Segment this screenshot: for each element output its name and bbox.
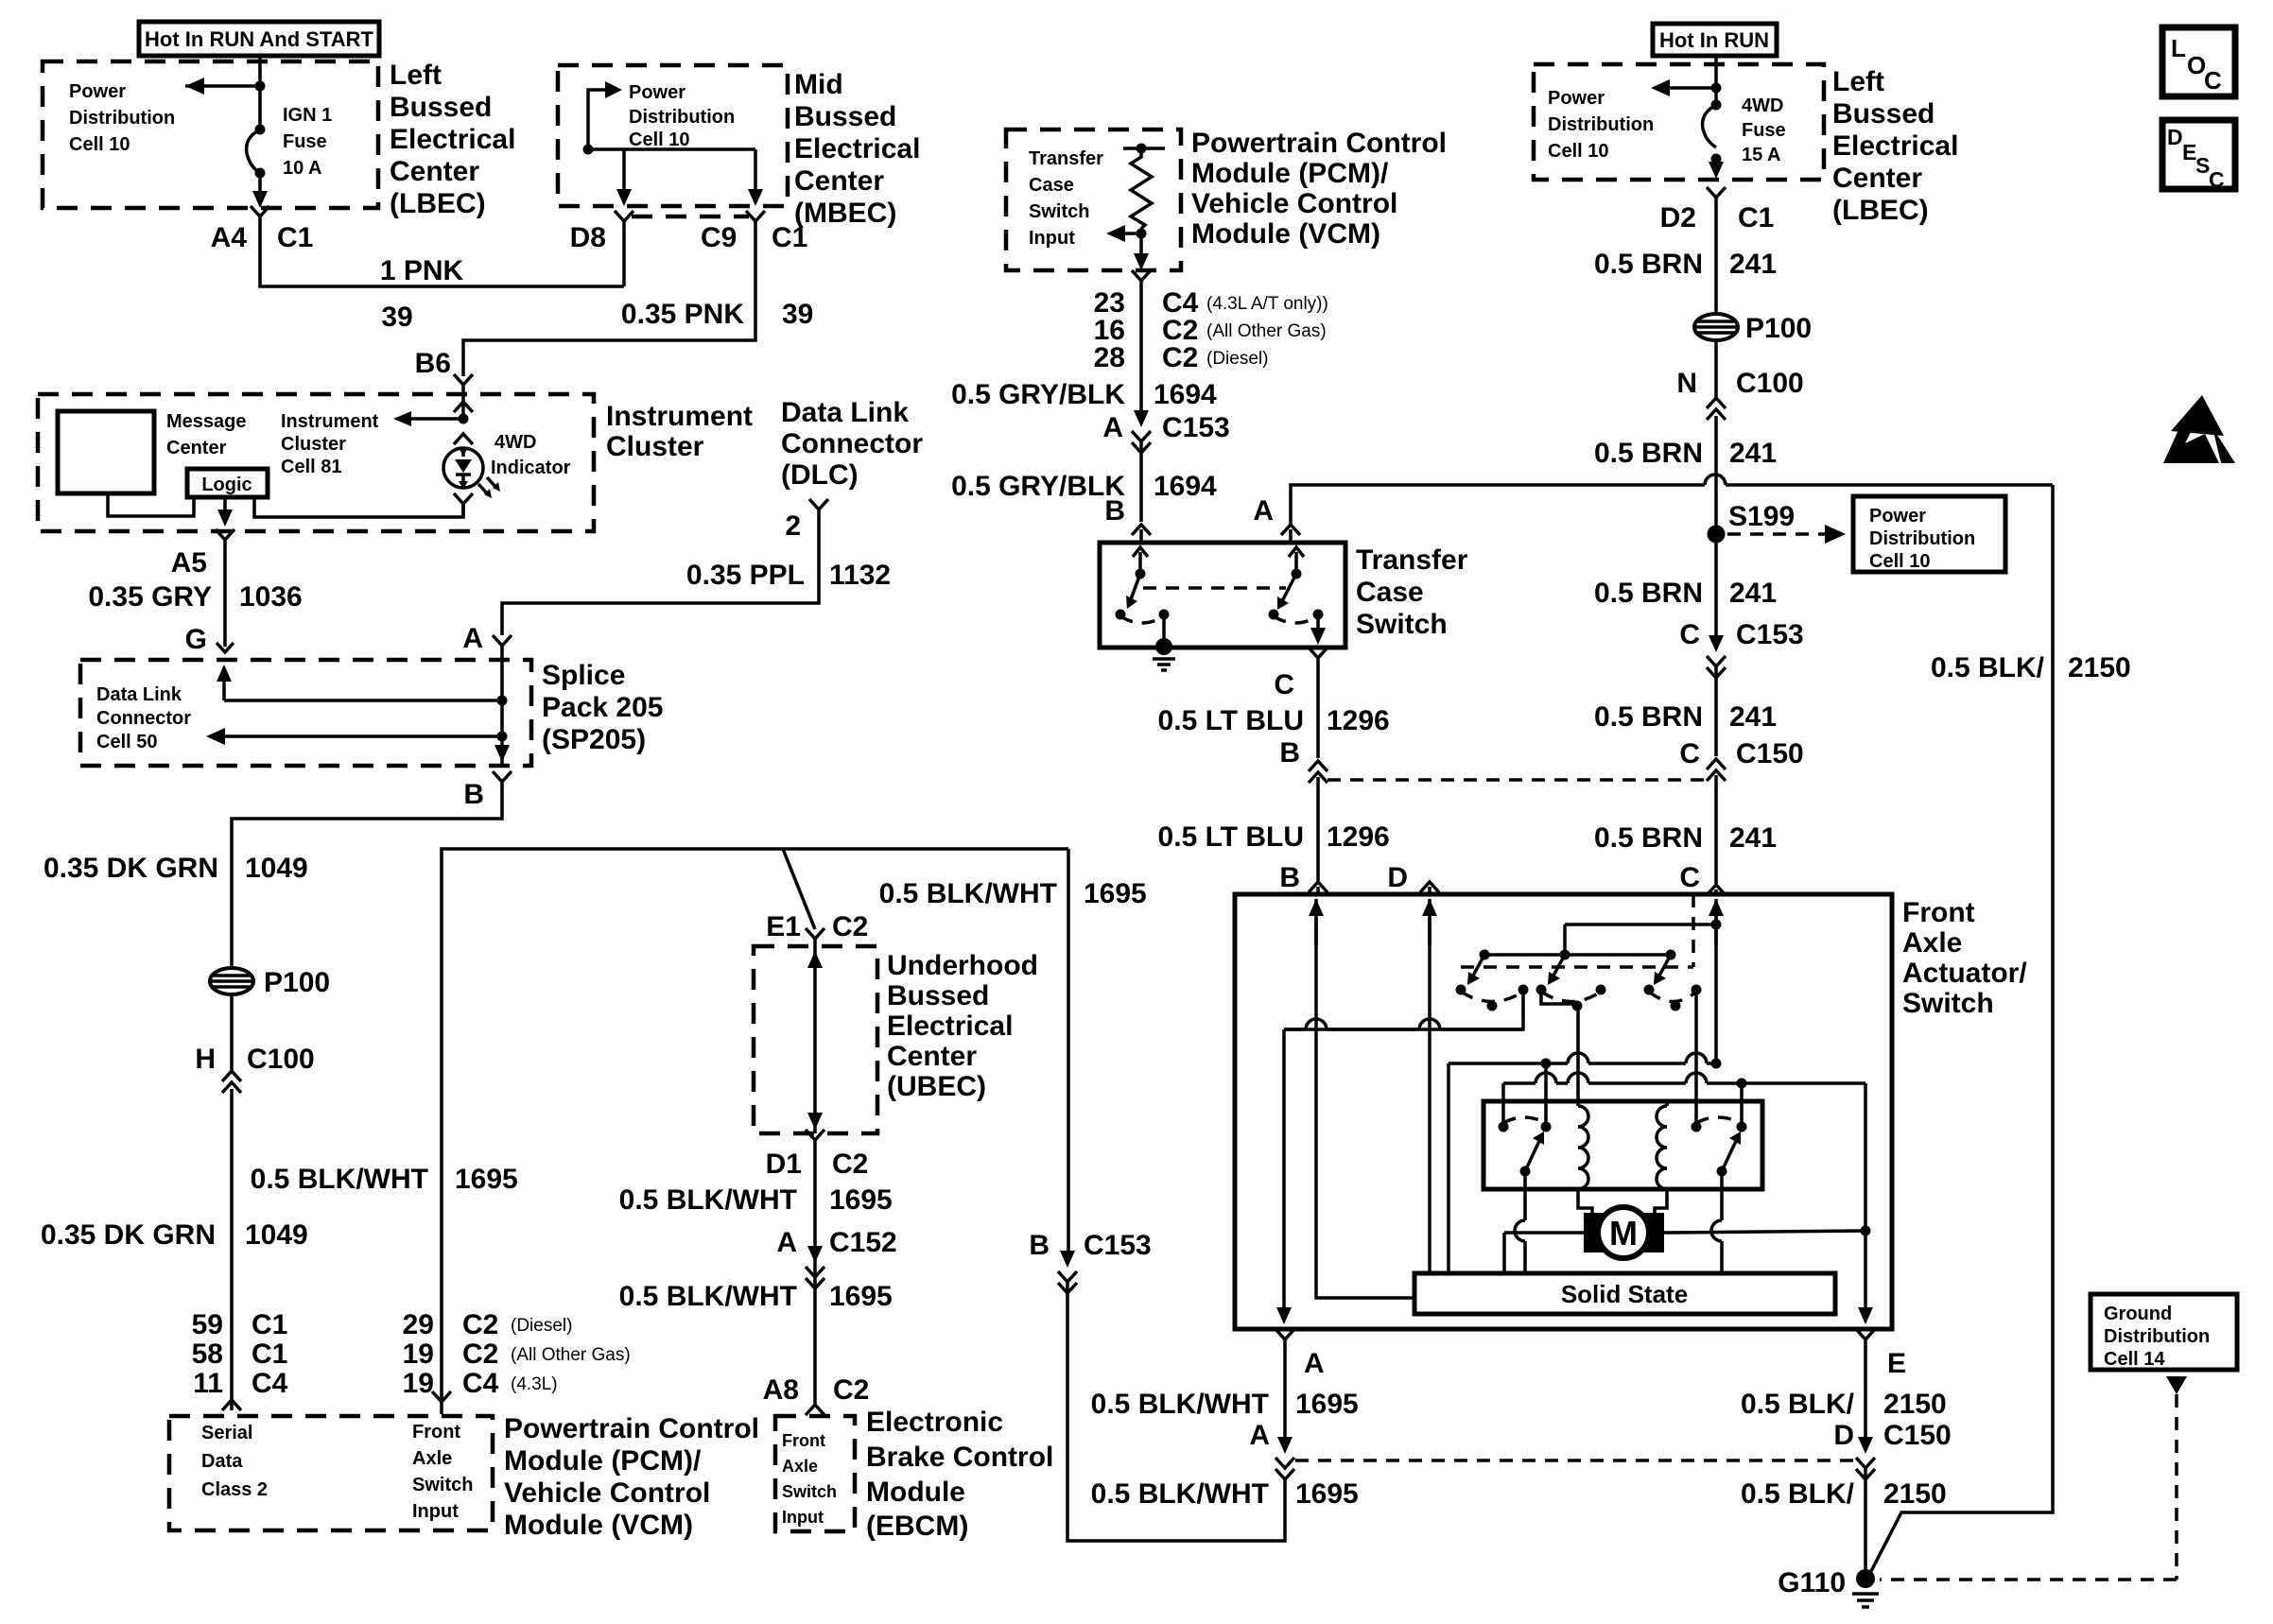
svg-text:0.35 PPL: 0.35 PPL bbox=[686, 560, 805, 591]
svg-text:Case: Case bbox=[1356, 577, 1424, 608]
svg-text:Power: Power bbox=[69, 81, 126, 102]
svg-text:0.5 BRN: 0.5 BRN bbox=[1594, 701, 1703, 733]
svg-text:1296: 1296 bbox=[1327, 821, 1390, 853]
svg-text:(All Other Gas): (All Other Gas) bbox=[1206, 321, 1327, 341]
svg-text:(UBEC): (UBEC) bbox=[887, 1071, 986, 1102]
svg-text:Switch: Switch bbox=[782, 1482, 837, 1501]
svg-text:(Diesel): (Diesel) bbox=[511, 1316, 572, 1336]
svg-text:Power: Power bbox=[1548, 88, 1605, 109]
svg-text:Bussed: Bussed bbox=[390, 92, 492, 123]
svg-text:(All Other Gas): (All Other Gas) bbox=[511, 1345, 631, 1365]
svg-text:(4.3L A/T only)): (4.3L A/T only)) bbox=[1206, 294, 1328, 314]
svg-text:0.5 BLK/WHT: 0.5 BLK/WHT bbox=[1091, 1478, 1269, 1510]
svg-text:39: 39 bbox=[782, 299, 813, 330]
svg-text:Electronic: Electronic bbox=[866, 1407, 1003, 1438]
svg-text:Left: Left bbox=[1832, 66, 1884, 97]
svg-text:Front: Front bbox=[1902, 897, 1975, 928]
svg-text:241: 241 bbox=[1729, 822, 1777, 854]
svg-text:D: D bbox=[1833, 1420, 1854, 1451]
svg-text:Serial: Serial bbox=[201, 1423, 252, 1443]
svg-text:C: C bbox=[1679, 619, 1700, 650]
svg-text:Module (VCM): Module (VCM) bbox=[1191, 218, 1380, 250]
svg-text:Cluster: Cluster bbox=[281, 434, 346, 455]
svg-text:2150: 2150 bbox=[1883, 1478, 1947, 1510]
svg-text:A4: A4 bbox=[211, 222, 248, 253]
svg-text:1049: 1049 bbox=[245, 1219, 308, 1251]
svg-text:C: C bbox=[1679, 862, 1700, 893]
svg-text:2150: 2150 bbox=[2068, 652, 2131, 683]
svg-text:B6: B6 bbox=[415, 348, 451, 379]
svg-text:D: D bbox=[2167, 125, 2183, 149]
svg-text:Transfer: Transfer bbox=[1029, 148, 1103, 169]
svg-text:(SP205): (SP205) bbox=[542, 724, 646, 755]
svg-text:Powertrain Control: Powertrain Control bbox=[1191, 128, 1447, 159]
svg-text:Solid State: Solid State bbox=[1561, 1280, 1688, 1308]
svg-text:4WD: 4WD bbox=[495, 432, 536, 453]
svg-text:Hot In RUN: Hot In RUN bbox=[1659, 28, 1769, 52]
svg-text:(EBCM): (EBCM) bbox=[866, 1511, 968, 1542]
svg-text:0.5 BRN: 0.5 BRN bbox=[1594, 438, 1703, 469]
svg-text:C2: C2 bbox=[462, 1339, 498, 1370]
svg-text:Distribution: Distribution bbox=[629, 107, 735, 128]
svg-text:Front: Front bbox=[412, 1422, 460, 1443]
svg-text:19: 19 bbox=[403, 1368, 434, 1399]
svg-text:0.5 GRY/BLK: 0.5 GRY/BLK bbox=[951, 379, 1125, 410]
svg-text:Transfer: Transfer bbox=[1356, 544, 1468, 576]
svg-text:0.5 BLK/WHT: 0.5 BLK/WHT bbox=[251, 1164, 428, 1195]
svg-text:Fuse: Fuse bbox=[283, 131, 327, 152]
svg-text:C2: C2 bbox=[462, 1309, 498, 1340]
svg-text:1695: 1695 bbox=[1084, 878, 1147, 909]
svg-text:Switch: Switch bbox=[412, 1475, 473, 1495]
svg-text:0.35 DK GRN: 0.35 DK GRN bbox=[43, 853, 218, 884]
svg-text:Logic: Logic bbox=[201, 475, 252, 495]
svg-text:(LBEC): (LBEC) bbox=[1832, 195, 1929, 226]
svg-text:A: A bbox=[1304, 1348, 1325, 1379]
svg-text:D8: D8 bbox=[570, 222, 606, 253]
svg-text:2150: 2150 bbox=[1883, 1389, 1947, 1420]
svg-text:Module (VCM): Module (VCM) bbox=[504, 1510, 693, 1541]
svg-text:A: A bbox=[1253, 495, 1274, 527]
svg-text:0.5 BLK/: 0.5 BLK/ bbox=[1741, 1389, 1855, 1420]
svg-text:1694: 1694 bbox=[1154, 379, 1217, 410]
svg-text:Connector: Connector bbox=[781, 428, 923, 459]
svg-text:Input: Input bbox=[782, 1508, 824, 1527]
svg-text:0.5 BRN: 0.5 BRN bbox=[1594, 249, 1703, 280]
svg-text:Switch: Switch bbox=[1902, 988, 1994, 1019]
svg-text:Data: Data bbox=[201, 1451, 243, 1472]
svg-text:S199: S199 bbox=[1728, 501, 1795, 532]
svg-text:Splice: Splice bbox=[542, 660, 625, 691]
svg-text:Cell 10: Cell 10 bbox=[1869, 551, 1930, 572]
svg-text:Hot In RUN And START: Hot In RUN And START bbox=[145, 27, 374, 51]
svg-text:A: A bbox=[1249, 1420, 1270, 1451]
svg-text:1132: 1132 bbox=[829, 560, 891, 591]
svg-text:Powertrain Control: Powertrain Control bbox=[504, 1413, 759, 1444]
svg-text:C9: C9 bbox=[701, 222, 737, 253]
svg-text:Module: Module bbox=[866, 1477, 965, 1508]
svg-text:Input: Input bbox=[412, 1501, 459, 1522]
svg-text:Cell 10: Cell 10 bbox=[1548, 141, 1608, 162]
svg-text:Center: Center bbox=[1832, 163, 1922, 194]
svg-text:Pack 205: Pack 205 bbox=[542, 692, 663, 723]
svg-text:A: A bbox=[1102, 412, 1123, 443]
svg-text:C: C bbox=[2209, 167, 2225, 192]
svg-text:A: A bbox=[462, 623, 483, 654]
svg-text:Center: Center bbox=[166, 438, 227, 458]
svg-text:Data Link: Data Link bbox=[96, 684, 182, 705]
svg-text:Left: Left bbox=[390, 60, 442, 91]
svg-text:P100: P100 bbox=[1745, 313, 1812, 344]
svg-text:0.5 BLK/: 0.5 BLK/ bbox=[1741, 1478, 1855, 1510]
svg-text:4WD: 4WD bbox=[1742, 95, 1783, 116]
svg-text:Module (PCM)/: Module (PCM)/ bbox=[1191, 158, 1389, 189]
svg-text:Cell 81: Cell 81 bbox=[281, 457, 341, 477]
svg-text:Center: Center bbox=[794, 165, 884, 197]
svg-text:Cell 10: Cell 10 bbox=[629, 130, 689, 150]
svg-text:Power: Power bbox=[629, 82, 685, 103]
svg-text:Electrical: Electrical bbox=[794, 133, 920, 164]
svg-text:(4.3L): (4.3L) bbox=[511, 1374, 558, 1394]
svg-text:1694: 1694 bbox=[1154, 471, 1217, 502]
svg-text:0.5 GRY/BLK: 0.5 GRY/BLK bbox=[951, 471, 1125, 502]
svg-text:B: B bbox=[1104, 495, 1125, 527]
svg-text:D: D bbox=[1387, 862, 1408, 893]
svg-text:39: 39 bbox=[381, 302, 412, 333]
svg-text:Vehicle Control: Vehicle Control bbox=[1191, 188, 1397, 219]
svg-text:Vehicle Control: Vehicle Control bbox=[504, 1477, 710, 1509]
svg-text:Power: Power bbox=[1869, 506, 1926, 527]
svg-text:C1: C1 bbox=[252, 1309, 287, 1340]
svg-text:Fuse: Fuse bbox=[1742, 120, 1786, 141]
svg-text:N: N bbox=[1676, 368, 1697, 399]
svg-text:Message: Message bbox=[166, 411, 247, 432]
svg-text:L: L bbox=[2171, 34, 2186, 62]
svg-text:Distribution: Distribution bbox=[69, 108, 175, 129]
svg-text:C1: C1 bbox=[252, 1339, 287, 1370]
svg-text:C150: C150 bbox=[1883, 1420, 1952, 1451]
svg-text:C4: C4 bbox=[462, 1368, 499, 1399]
svg-text:Bussed: Bussed bbox=[794, 101, 896, 132]
svg-text:H: H bbox=[195, 1044, 216, 1075]
svg-text:C4: C4 bbox=[252, 1368, 288, 1399]
svg-text:Module (PCM)/: Module (PCM)/ bbox=[504, 1445, 702, 1477]
svg-text:0.5 BLK/: 0.5 BLK/ bbox=[1931, 652, 2045, 683]
svg-text:241: 241 bbox=[1729, 578, 1777, 609]
svg-text:A5: A5 bbox=[171, 547, 207, 579]
svg-text:19: 19 bbox=[403, 1339, 434, 1370]
svg-text:C2: C2 bbox=[832, 911, 868, 942]
svg-text:1695: 1695 bbox=[1295, 1389, 1359, 1420]
svg-text:1049: 1049 bbox=[245, 853, 308, 884]
svg-text:C: C bbox=[1679, 738, 1700, 769]
svg-text:B: B bbox=[1279, 737, 1300, 769]
svg-text:Mid: Mid bbox=[794, 69, 843, 100]
svg-text:0.5 BLK/WHT: 0.5 BLK/WHT bbox=[619, 1281, 797, 1312]
svg-text:Distribution: Distribution bbox=[1869, 528, 1975, 549]
svg-text:Electrical: Electrical bbox=[390, 124, 515, 155]
svg-text:1695: 1695 bbox=[1295, 1478, 1359, 1510]
svg-text:Actuator/: Actuator/ bbox=[1902, 958, 2027, 989]
svg-text:C150: C150 bbox=[1736, 738, 1804, 769]
svg-text:E1: E1 bbox=[766, 911, 801, 942]
svg-text:0.5 LT BLU: 0.5 LT BLU bbox=[1158, 705, 1304, 736]
svg-text:28: 28 bbox=[1094, 342, 1125, 373]
svg-text:G110: G110 bbox=[1778, 1567, 1846, 1598]
svg-text:M: M bbox=[1609, 1214, 1638, 1253]
svg-text:C1: C1 bbox=[277, 222, 313, 253]
svg-text:C: C bbox=[2204, 66, 2222, 95]
svg-text:C152: C152 bbox=[829, 1227, 897, 1258]
svg-text:0.35 PNK: 0.35 PNK bbox=[621, 299, 744, 330]
svg-text:Center: Center bbox=[887, 1041, 977, 1072]
svg-text:Electrical: Electrical bbox=[887, 1011, 1013, 1042]
svg-text:1296: 1296 bbox=[1327, 705, 1390, 736]
svg-text:Bussed: Bussed bbox=[1832, 98, 1935, 130]
svg-text:P100: P100 bbox=[264, 967, 330, 998]
svg-text:D1: D1 bbox=[766, 1149, 802, 1180]
svg-text:C153: C153 bbox=[1162, 412, 1230, 443]
svg-text:15 A: 15 A bbox=[1742, 145, 1781, 165]
svg-text:C153: C153 bbox=[1084, 1230, 1152, 1261]
svg-text:Switch: Switch bbox=[1029, 201, 1089, 222]
svg-text:0.5 LT BLU: 0.5 LT BLU bbox=[1158, 821, 1304, 853]
svg-text:Electrical: Electrical bbox=[1832, 130, 1958, 162]
svg-text:Cell 14: Cell 14 bbox=[2104, 1349, 2165, 1370]
svg-text:0.5 BLK/WHT: 0.5 BLK/WHT bbox=[879, 878, 1057, 909]
svg-text:Input: Input bbox=[1029, 228, 1075, 249]
svg-text:Instrument: Instrument bbox=[606, 401, 753, 432]
svg-text:11: 11 bbox=[193, 1368, 223, 1399]
svg-text:E: E bbox=[1887, 1348, 1906, 1379]
svg-text:2: 2 bbox=[785, 510, 801, 542]
svg-text:Distribution: Distribution bbox=[2104, 1326, 2210, 1347]
svg-text:C1: C1 bbox=[772, 222, 807, 253]
svg-text:Axle: Axle bbox=[782, 1457, 818, 1476]
svg-text:B: B bbox=[1029, 1230, 1050, 1261]
svg-text:1036: 1036 bbox=[239, 581, 303, 613]
svg-text:IGN 1: IGN 1 bbox=[283, 105, 332, 126]
svg-text:Axle: Axle bbox=[1902, 927, 1962, 959]
svg-text:B: B bbox=[463, 779, 484, 810]
svg-text:0.5 BRN: 0.5 BRN bbox=[1594, 822, 1703, 854]
svg-text:241: 241 bbox=[1729, 249, 1777, 280]
svg-text:241: 241 bbox=[1729, 701, 1777, 733]
svg-text:(MBEC): (MBEC) bbox=[794, 198, 896, 229]
svg-text:Axle: Axle bbox=[412, 1448, 452, 1469]
svg-text:1695: 1695 bbox=[455, 1164, 518, 1195]
svg-text:58: 58 bbox=[192, 1339, 223, 1370]
svg-text:Center: Center bbox=[390, 156, 479, 187]
svg-text:(LBEC): (LBEC) bbox=[390, 188, 486, 219]
svg-text:Indicator: Indicator bbox=[491, 458, 571, 478]
svg-text:0.5 BLK/WHT: 0.5 BLK/WHT bbox=[1091, 1389, 1269, 1420]
svg-text:C2: C2 bbox=[832, 1149, 868, 1180]
svg-text:10 A: 10 A bbox=[283, 158, 322, 179]
svg-text:C2: C2 bbox=[1162, 342, 1198, 373]
svg-text:Connector: Connector bbox=[96, 708, 191, 729]
svg-text:Data Link: Data Link bbox=[781, 397, 909, 428]
svg-text:Brake Control: Brake Control bbox=[866, 1442, 1053, 1473]
svg-text:G: G bbox=[185, 624, 207, 655]
svg-text:Front: Front bbox=[782, 1431, 825, 1450]
svg-text:A: A bbox=[776, 1227, 797, 1258]
svg-text:Cell 10: Cell 10 bbox=[69, 134, 130, 155]
svg-text:59: 59 bbox=[192, 1309, 223, 1340]
svg-text:Distribution: Distribution bbox=[1548, 114, 1654, 135]
svg-text:0.5 BLK/WHT: 0.5 BLK/WHT bbox=[619, 1184, 797, 1216]
svg-text:1 PNK: 1 PNK bbox=[380, 255, 464, 286]
svg-text:D2: D2 bbox=[1660, 202, 1696, 233]
svg-text:Switch: Switch bbox=[1356, 609, 1448, 640]
svg-text:Class 2: Class 2 bbox=[201, 1479, 268, 1500]
svg-text:B: B bbox=[1279, 862, 1300, 893]
svg-text:Case: Case bbox=[1029, 175, 1074, 196]
svg-text:Cluster: Cluster bbox=[606, 431, 704, 462]
svg-text:A8: A8 bbox=[763, 1374, 799, 1406]
svg-text:29: 29 bbox=[403, 1309, 434, 1340]
svg-text:Instrument: Instrument bbox=[281, 411, 379, 432]
svg-text:C153: C153 bbox=[1736, 619, 1804, 650]
svg-text:0.35 GRY: 0.35 GRY bbox=[88, 581, 212, 613]
svg-text:Bussed: Bussed bbox=[887, 980, 989, 1011]
svg-text:Ground: Ground bbox=[2104, 1304, 2172, 1324]
svg-text:241: 241 bbox=[1729, 438, 1777, 469]
svg-text:Cell 50: Cell 50 bbox=[96, 732, 157, 752]
svg-text:(DLC): (DLC) bbox=[781, 459, 859, 491]
svg-text:C100: C100 bbox=[247, 1044, 315, 1075]
svg-text:C: C bbox=[1274, 669, 1294, 700]
svg-text:Underhood: Underhood bbox=[887, 950, 1038, 981]
svg-text:(Diesel): (Diesel) bbox=[1206, 349, 1268, 369]
svg-text:1695: 1695 bbox=[829, 1281, 893, 1312]
svg-text:0.35 DK GRN: 0.35 DK GRN bbox=[41, 1219, 216, 1251]
svg-text:C1: C1 bbox=[1738, 202, 1774, 233]
svg-text:1695: 1695 bbox=[829, 1184, 893, 1216]
svg-text:0.5 BRN: 0.5 BRN bbox=[1594, 578, 1703, 609]
svg-text:C100: C100 bbox=[1736, 368, 1804, 399]
svg-text:C2: C2 bbox=[833, 1374, 869, 1406]
